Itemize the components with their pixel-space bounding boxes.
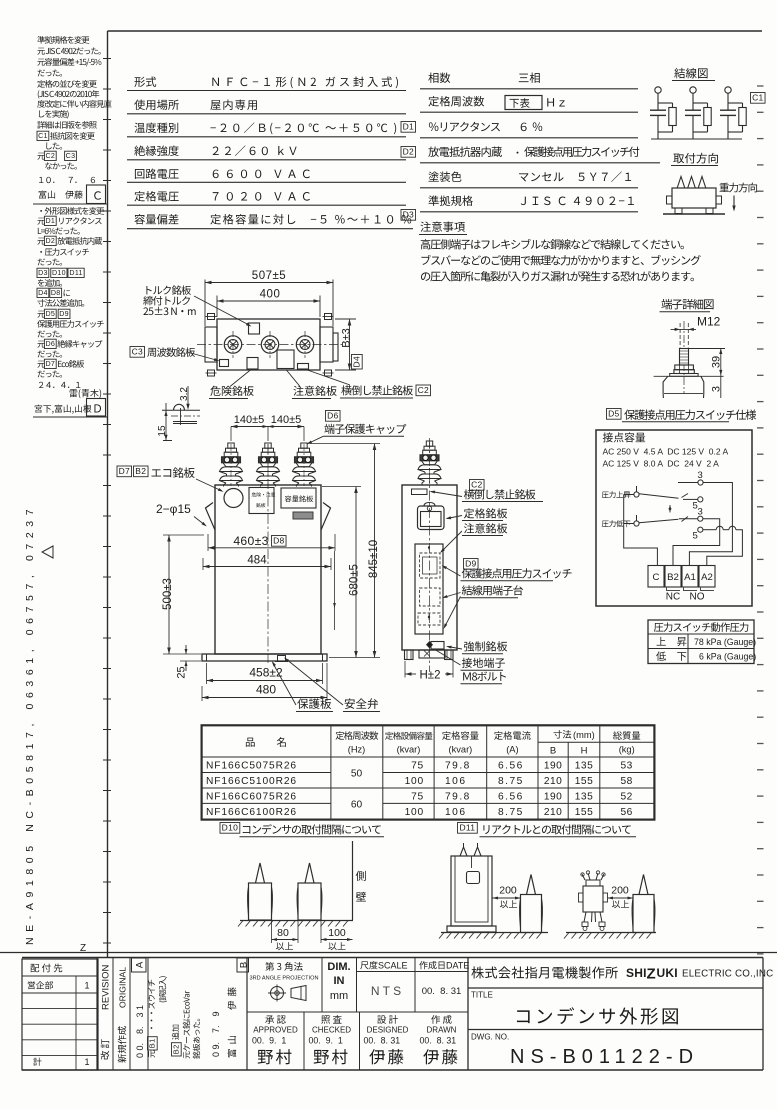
svg-text:D2: D2 (403, 147, 414, 157)
svg-text:Z: Z (80, 943, 86, 954)
svg-text:B±3: B±3 (341, 328, 353, 348)
配付先 distribution table (22, 959, 98, 1070)
dimension 140±5 140±5 (231, 414, 304, 441)
svg-text:(kvar): (kvar) (449, 745, 473, 755)
svg-text:D4: D4 (352, 356, 362, 367)
terminal A1 (682, 566, 698, 588)
svg-text:B1: B1 (148, 1038, 157, 1048)
top view body (217, 319, 320, 370)
svg-text:200: 200 (499, 885, 517, 897)
svg-text:C3: C3 (66, 152, 76, 160)
svg-text:155: 155 (575, 776, 594, 787)
svg-text:A2: A2 (701, 572, 713, 583)
note line 2 (421, 255, 700, 266)
svg-text:460±3: 460±3 (233, 534, 268, 548)
left margin triangle marker (42, 546, 53, 558)
svg-text:DWG. NO.: DWG. NO. (471, 1033, 509, 1042)
svg-text:D11: D11 (69, 269, 82, 277)
svg-text:78 kPa (Gauge): 78 kPa (Gauge) (694, 637, 756, 647)
dimension B±3 with D4 (335, 319, 362, 370)
approval grid lines (247, 1011, 468, 1013)
svg-text:6 kPa (Gauge): 6 kPa (Gauge) (699, 652, 756, 662)
wire 5b to A2 (with crossing hops) (703, 526, 743, 565)
front view bushing 1 (220, 443, 243, 487)
contact 5 upper (683, 497, 703, 512)
label 結線用端子台 (442, 585, 523, 629)
dimension 845±10 (310, 444, 380, 658)
label 接地端子 (434, 649, 505, 670)
dimension 3.2 (179, 386, 190, 410)
top view terminal 3 (296, 331, 313, 358)
svg-text:1: 1 (84, 1057, 89, 1067)
top view terminal 1 (224, 331, 241, 358)
capacitor unit 1 (terminal, capacitor, discharge resistor) (650, 87, 676, 139)
spec row 回路電圧 (127, 169, 406, 183)
D10 heading コンデンサの取付間隔について (220, 823, 384, 837)
D11 ground hatch left (439, 933, 548, 939)
svg-text:UKI: UKI (657, 966, 678, 980)
svg-text:210: 210 (544, 776, 563, 787)
svg-text:D1: D1 (403, 122, 414, 132)
top view horizontal centerline (197, 344, 342, 346)
contact 3 upper (678, 470, 703, 485)
svg-text:00. 8. 31: 00. 8. 31 (420, 1036, 457, 1046)
svg-text:(kvar): (kvar) (397, 745, 421, 755)
label C2 横倒し禁止銘板 (430, 480, 544, 502)
D11 reactor cabinet (447, 843, 496, 932)
svg-text:B2: B2 (667, 572, 679, 583)
label 危険銘板 (209, 370, 254, 399)
label D9 保護接点用圧力スイッチ (442, 559, 572, 581)
svg-text:ELECTRIC CO.,INC: ELECTRIC CO.,INC (682, 969, 773, 980)
svg-text:39: 39 (711, 356, 723, 368)
DIM IN mm cell (327, 958, 356, 1013)
svg-text:H±2: H±2 (419, 670, 440, 682)
left lifting lug (206, 503, 216, 531)
svg-text:(kg): (kg) (619, 745, 635, 755)
圧力スイッチ動作圧力 table (648, 620, 756, 664)
svg-text:58: 58 (621, 776, 633, 787)
label 注意銘板 (286, 370, 337, 399)
svg-text:D8: D8 (273, 536, 284, 546)
svg-text:6.56: 6.56 (498, 792, 524, 803)
svg-text:1: 1 (84, 981, 89, 991)
svg-text:H: H (581, 746, 588, 757)
svg-text:52: 52 (621, 792, 633, 803)
label トルク銘板/締付トルク/25±3 N・m (143, 285, 251, 326)
D3 box (401, 210, 416, 221)
top view terminal 2 (261, 331, 278, 358)
svg-text:53: 53 (621, 761, 633, 772)
svg-text:75: 75 (411, 761, 424, 772)
svg-text:Z: Z (647, 966, 656, 983)
label 定格銘板 (446, 508, 508, 520)
svg-text:79.8: 79.8 (445, 761, 471, 772)
D11 ground hatch right (564, 933, 656, 939)
svg-text:3: 3 (711, 386, 723, 392)
svg-text:210: 210 (544, 807, 563, 818)
svg-text:D6: D6 (45, 340, 55, 348)
DWG NO cell (468, 1030, 763, 1069)
approval cell APPROVED (252, 1015, 298, 1064)
caution nameplate on body (277, 350, 294, 369)
contact 3 lower (679, 507, 703, 522)
svg-text:(mm): (mm) (573, 730, 595, 740)
svg-text:IN: IN (334, 975, 345, 987)
label 保護板 (272, 661, 333, 712)
original date column with A mark (132, 958, 149, 1071)
spec row 温度種別 (127, 122, 406, 136)
revision D signature row (35, 405, 92, 414)
original column 新規作成 ORIGINAL (118, 958, 131, 1071)
tip-over nameplate on body (298, 364, 309, 370)
svg-text:190: 190 (544, 792, 563, 803)
D10 dim 100 以上 (321, 921, 353, 950)
dimension 500±3 (162, 535, 204, 654)
svg-text:6.56: 6.56 (498, 761, 524, 772)
svg-text:(Hz): (Hz) (348, 745, 366, 755)
svg-text:N T S: N T S (371, 984, 401, 998)
sheet frame top border (108, 30, 763, 32)
frequency nameplate on body (220, 360, 229, 367)
svg-text:NF166C5100R26: NF166C5100R26 (206, 776, 297, 787)
svg-text:200: 200 (611, 885, 629, 897)
mounting ground line (663, 213, 725, 215)
spec row 使用場所 (127, 100, 406, 114)
terminal blocks (dashed) (420, 588, 441, 606)
right border partial (762, 958, 764, 1071)
parts table headers (246, 730, 640, 757)
D5 保護接点用圧力スイッチ仕様 heading (607, 409, 757, 422)
label 横倒し禁止銘板 C2 (306, 370, 431, 399)
svg-text:8.75: 8.75 (498, 776, 524, 787)
title block bottom border (22, 1069, 763, 1071)
side view tip-over nameplate (412, 489, 428, 495)
svg-text:D11: D11 (459, 823, 475, 833)
svg-text:8.75: 8.75 (498, 807, 524, 818)
svg-text:D5: D5 (608, 409, 619, 419)
capacitor unit 3 (terminal, capacitor, discharge resistor) (720, 87, 746, 139)
front view center line (267, 444, 269, 663)
side view feet (405, 650, 454, 660)
terminal B2 (665, 566, 681, 588)
label 注意銘板 (440, 523, 507, 553)
parts row NF166C6075R26 (206, 792, 633, 803)
divider under revision C (33, 203, 107, 205)
svg-text:2−φ15: 2−φ15 (156, 502, 191, 516)
svg-text:56: 56 (621, 807, 633, 818)
parts row NF166C5100R26 (206, 769, 633, 788)
front view body (215, 485, 321, 654)
svg-text:DATE: DATE (446, 961, 469, 971)
D11 dim 200 以上 (left) (493, 885, 521, 909)
svg-text:B2: B2 (135, 466, 146, 476)
svg-text:400: 400 (260, 289, 281, 301)
svg-text:D3: D3 (403, 210, 414, 220)
svg-text:507±5: 507±5 (252, 270, 286, 282)
M12 label and width arrows (671, 315, 721, 348)
approval cell DRAWN (420, 1015, 458, 1064)
danger/caution nameplate (249, 488, 275, 514)
label D7 B2 エコ銘板 (117, 466, 224, 492)
svg-text:D2: D2 (45, 237, 55, 245)
svg-text:D1: D1 (45, 217, 55, 225)
svg-text:D7: D7 (119, 466, 130, 476)
svg-text:SHI: SHI (626, 966, 647, 980)
svg-text:APPROVED: APPROVED (253, 1026, 298, 1035)
svg-text:C2: C2 (418, 385, 429, 395)
svg-text:DESIGNED: DESIGNED (367, 1026, 409, 1035)
svg-text:79.8: 79.8 (445, 792, 471, 803)
svg-text:00. 8. 31: 00. 8. 31 (364, 1036, 401, 1046)
dimension 25 (176, 645, 202, 679)
svg-text:D4: D4 (38, 289, 48, 297)
svg-text:75: 75 (411, 792, 424, 803)
revision note block D (lower left) (37, 207, 104, 398)
svg-text:NF166C6075R26: NF166C6075R26 (206, 792, 297, 803)
重力方向 label with gravity arrow (720, 183, 758, 212)
svg-text:C: C (653, 572, 660, 583)
端子詳細図 title (660, 299, 714, 312)
dimension 15 (157, 403, 168, 441)
title block top border (22, 957, 763, 959)
D11 dim 200 以上 (right) (608, 885, 634, 909)
svg-text:480: 480 (256, 683, 276, 697)
svg-text:15: 15 (157, 425, 168, 437)
D10 side wall (352, 841, 354, 920)
svg-text:NS-B01122-D: NS-B01122-D (510, 1046, 699, 1068)
top view flange bolts (206, 314, 334, 377)
spec row 定格電圧 (127, 191, 406, 205)
terminal shadows (667, 587, 715, 591)
svg-text:SCALE: SCALE (378, 961, 408, 971)
svg-text:00. 9. 1: 00. 9. 1 (309, 1036, 343, 1046)
label 強制銘板 (446, 641, 507, 654)
D10 dim 80 以上 (272, 921, 299, 950)
dimension 400 (217, 289, 320, 318)
svg-text:D7: D7 (45, 360, 55, 368)
approval cell CHECKED (309, 1015, 352, 1064)
insulator top (654, 376, 724, 398)
note line 3 (421, 271, 694, 281)
D10 側壁 label (356, 871, 366, 881)
svg-text:3RD ANGLE PROJECTION: 3RD ANGLE PROJECTION (249, 976, 318, 982)
company name 株式会社指月電機製作所 SHIZUKI ELECTRIC (471, 966, 773, 983)
svg-text:CHECKED: CHECKED (312, 1026, 351, 1035)
approval cell DESIGNED (364, 1015, 409, 1064)
svg-text:80: 80 (277, 927, 289, 939)
svg-text:D3: D3 (38, 269, 48, 277)
D11 reactor machine (579, 871, 608, 931)
pressure switch (dashed) (420, 553, 441, 578)
date cell 作成日 DATE (419, 958, 469, 1071)
danger nameplate on body (247, 358, 258, 370)
svg-text:(A): (A) (506, 745, 518, 755)
third angle projection cell (249, 958, 322, 1013)
取付方向 title (671, 153, 718, 166)
svg-text:100: 100 (405, 807, 424, 818)
D5 spec box (596, 430, 752, 606)
D10 capacitor 1 (248, 863, 273, 920)
svg-text:00. 8. 31: 00. 8. 31 (422, 986, 462, 997)
dimension 680±5 (322, 487, 361, 658)
svg-text:NE-A91805 NC-B05817, 06361, 06: NE-A91805 NC-B05817, 06361, 06757, 07237 (24, 504, 36, 945)
revision C signature row (39, 190, 83, 198)
svg-text:D8: D8 (51, 289, 61, 297)
svg-text:B: B (238, 962, 249, 968)
revision note block C (upper left) (37, 36, 112, 183)
svg-text:A1: A1 (684, 572, 696, 583)
divider under revision D (33, 416, 107, 418)
terminal A2 (699, 566, 715, 588)
svg-text:484: 484 (247, 555, 267, 567)
svg-text:NF166C5075R26: NF166C5075R26 (206, 761, 297, 772)
D11 capacitor next to reactor (632, 875, 655, 933)
torque nameplate on body (249, 323, 260, 334)
svg-text:B: B (550, 746, 556, 757)
svg-text:500±3: 500±3 (162, 578, 174, 610)
svg-text:mm: mm (330, 990, 348, 1002)
svg-text:60: 60 (351, 799, 363, 810)
safety valve under base (275, 656, 288, 662)
ground bolt marker (424, 642, 433, 657)
svg-text:C2: C2 (45, 152, 55, 160)
right lifting lug (321, 503, 331, 531)
svg-text:M12: M12 (697, 315, 721, 329)
svg-text:NF166C6100R26: NF166C6100R26 (206, 807, 297, 818)
label C3 周波数銘板 (130, 347, 220, 362)
parts table grid (202, 725, 655, 819)
side view center line (429, 438, 431, 672)
D10 ground hatch (238, 921, 353, 927)
right margin perforation dashes (757, 86, 764, 954)
scale cell 尺度 NTS (357, 958, 469, 1013)
svg-text:25: 25 (176, 666, 188, 678)
dimension 458±2 (207, 663, 323, 684)
spec row 形式 (127, 77, 406, 91)
top view right flange (320, 327, 333, 362)
svg-text:845±10: 845±10 (368, 540, 380, 578)
svg-text:680±5: 680±5 (349, 564, 361, 596)
eco nameplate circle (224, 489, 243, 508)
sheet frame left border (107, 31, 109, 957)
dimension 507±5 (205, 270, 333, 326)
contact 5 lower (693, 527, 703, 541)
dimension 39 (689, 349, 725, 376)
content/title separator line (0, 952, 777, 954)
svg-text:ORIGINAL: ORIGINAL (118, 967, 128, 1008)
spec row 相数 (420, 73, 638, 89)
svg-text:135: 135 (575, 792, 594, 803)
dimension 3 (711, 375, 723, 398)
svg-text:D5: D5 (45, 310, 55, 318)
svg-text:135: 135 (575, 761, 594, 772)
接点容量 heading (603, 432, 645, 442)
terminal stud bolt (670, 321, 698, 394)
svg-text:C1: C1 (38, 132, 48, 140)
label M8ボルト (461, 671, 506, 683)
spec row 塗装色 (420, 171, 638, 187)
front view bushing 2 (257, 443, 280, 487)
wire left bus to C (624, 495, 658, 566)
svg-text:140±5: 140±5 (271, 414, 302, 426)
front view base channel (202, 654, 327, 661)
rating nameplate cover (418, 503, 445, 530)
svg-text:50: 50 (351, 769, 363, 780)
svg-text:3.2: 3.2 (179, 387, 190, 401)
flange bracket detail (162, 404, 200, 440)
svg-text:AC 125 V 8.0 A DC 24 V 2 A: AC 125 V 8.0 A DC 24 V 2 A (603, 459, 720, 469)
svg-text:B2: B2 (172, 1044, 181, 1054)
svg-text:100: 100 (405, 776, 424, 787)
dimension 484 (203, 555, 331, 571)
svg-text:106: 106 (445, 776, 467, 787)
revision B note column (148, 958, 250, 1071)
svg-text:AC 250 V 4.5 A DC 125 V 0.2: AC 250 V 4.5 A DC 125 V 0.2 A (603, 447, 729, 457)
top view left flange (205, 327, 217, 362)
side view bushing (418, 441, 441, 485)
svg-text:106: 106 (445, 807, 467, 818)
capacity nameplate (281, 488, 316, 508)
capacitor unit 2 (terminal, capacitor, discharge resistor) (685, 87, 711, 139)
label 安全弁 (284, 658, 380, 712)
svg-text:D6: D6 (327, 411, 338, 421)
svg-text:190: 190 (544, 761, 563, 772)
mounting direction capacitor box with bushings (667, 177, 722, 214)
svg-text:TITLE: TITLE (471, 991, 493, 1000)
svg-text:C3: C3 (132, 347, 143, 357)
svg-text:D10: D10 (52, 269, 66, 277)
D11 heading リアクトルとの取付間隔について (458, 823, 637, 837)
label 2−φ15 (156, 502, 207, 527)
spec row 準拠規格 (420, 195, 638, 211)
svg-text:REVISION: REVISION (101, 964, 112, 1010)
wire 3b to B2 (673, 519, 720, 566)
spec row %%リアクタンス with D1 (401, 122, 638, 138)
svg-text:D10: D10 (222, 823, 239, 833)
small dark plate (293, 512, 313, 519)
side view recessed panel (415, 544, 443, 634)
node C1 label (751, 93, 766, 104)
svg-text:C1: C1 (752, 93, 763, 103)
svg-text:00. 9. 1: 00. 9. 1 (252, 1036, 286, 1046)
svg-text:NO: NO (690, 592, 705, 603)
svg-text:5: 5 (693, 531, 698, 542)
switch 圧力低下 (602, 508, 688, 527)
wiring bottom bus (651, 138, 742, 140)
spec row 放電抵抗器内蔵 with D2 (401, 147, 660, 163)
svg-text:C2: C2 (471, 480, 482, 490)
svg-text:100: 100 (328, 927, 346, 939)
dimension H±2 (405, 661, 453, 682)
svg-text:A: A (134, 961, 145, 968)
結線図 title (672, 68, 715, 81)
svg-text:155: 155 (575, 807, 594, 818)
D10 capacitor 2 (297, 863, 322, 920)
parts row NF166C6100R26 (206, 799, 633, 818)
side view body (402, 485, 457, 650)
dimension 460±3 D8 (208, 534, 336, 630)
terminal C (648, 566, 664, 588)
switch 圧力上昇 (602, 486, 688, 510)
D11 capacitor next to cabinet (520, 875, 543, 933)
注意事項 heading (419, 222, 467, 235)
note line 1 (421, 239, 684, 250)
svg-text:140±5: 140±5 (234, 414, 265, 426)
parts row NF166C5075R26 (206, 761, 633, 772)
label D6 端子保護キャップ (307, 411, 407, 445)
wire 3a to A1 (689, 483, 732, 566)
